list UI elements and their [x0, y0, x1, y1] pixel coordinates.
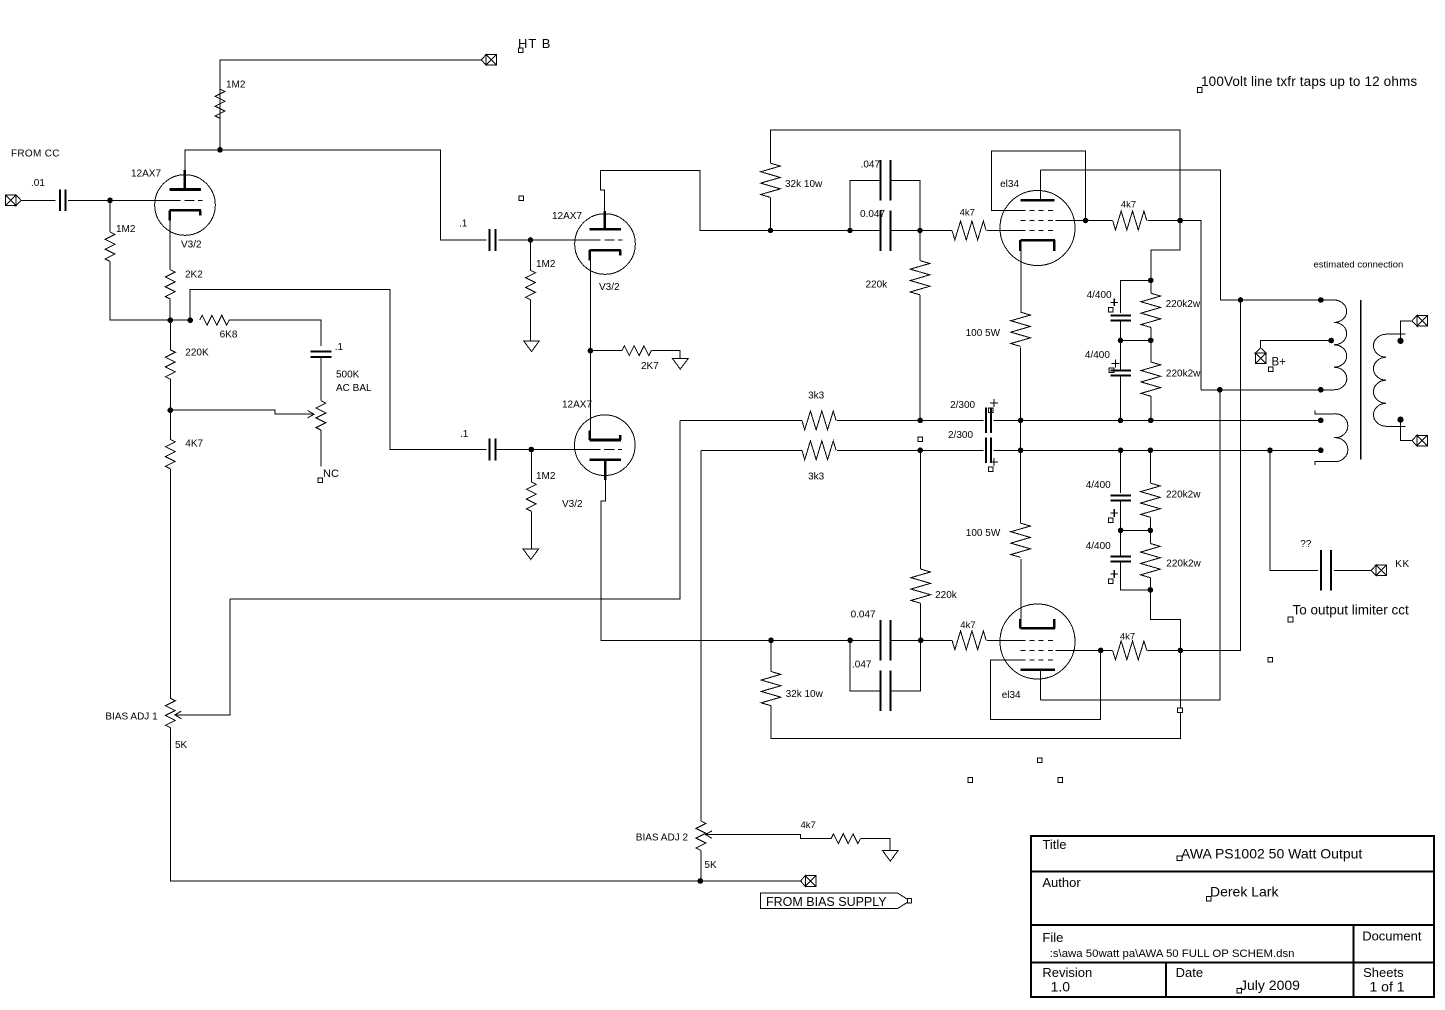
svg-text:To output limiter cct: To output limiter cct	[1293, 603, 1410, 618]
capacitor C8 4/400 label	[1085, 350, 1110, 361]
wire B+ tap	[1261, 341, 1332, 349]
svg-text:4/400: 4/400	[1085, 350, 1110, 361]
title block title text	[1181, 846, 1362, 862]
pot R5 500K body	[316, 401, 326, 430]
node plate rail junction	[1238, 297, 1244, 303]
svg-text:4K7: 4K7	[185, 439, 203, 450]
svg-text:1 of 1: 1 of 1	[1370, 979, 1405, 995]
capacitor C5 .047 label upper	[861, 160, 881, 171]
node NC label	[323, 468, 339, 480]
wire2 after 2/300	[993, 449, 1320, 451]
wire 220k upper top	[919, 231, 921, 261]
wire mid row	[1121, 339, 1151, 341]
title block Revision label	[1042, 965, 1092, 980]
wire bank bottom to screen node	[1150, 590, 1180, 651]
resistor R23 32k 10w label	[786, 689, 824, 700]
wire mid2 to C12	[1120, 530, 1122, 556]
node wire2 winding end	[1318, 448, 1324, 454]
svg-text:.047: .047	[852, 660, 872, 671]
node mid row left	[1118, 338, 1124, 344]
marker square lower d	[1058, 778, 1063, 783]
svg-text:32k 10w: 32k 10w	[785, 179, 823, 190]
resistor R17 220k2w label	[1166, 299, 1201, 310]
resistor R14 220k upper	[910, 261, 930, 295]
marker square lower c	[968, 778, 973, 783]
resistor R27 100 5W lower	[1011, 523, 1031, 557]
wire screen node to bank	[1151, 221, 1180, 281]
svg-text:el34: el34	[1000, 179, 1019, 190]
marker square C10	[988, 467, 993, 472]
label estimated connection	[1314, 260, 1404, 271]
svg-text:500K: 500K	[336, 370, 360, 381]
node cap bridge right upper	[917, 228, 923, 234]
wire V1 cathode to R2	[169, 221, 171, 270]
pot R8 5K label	[175, 740, 188, 751]
capacitor C3 .1 label	[459, 219, 468, 230]
marker square lower right a	[1178, 708, 1183, 713]
node wire1 winding end	[1318, 418, 1324, 424]
wire V1 plate up to node	[185, 150, 220, 170]
wire bank top to C7	[1121, 280, 1151, 313]
svg-text:.1: .1	[460, 429, 469, 440]
wire V3 plate down to lower rail	[601, 480, 771, 640]
resistor R15 4k7 screen upper	[1113, 211, 1147, 230]
svg-text:1.0: 1.0	[1051, 979, 1071, 995]
tube V5 el34 label	[1002, 690, 1021, 701]
wire R21 top	[1149, 450, 1151, 483]
resistor R27 100 5W label lower	[966, 528, 1001, 539]
marker square date	[1237, 988, 1242, 993]
svg-text:12AX7: 12AX7	[552, 211, 582, 222]
resistor R2 2K2 label	[185, 270, 203, 281]
resistor R16 100 5W label upper	[966, 328, 1001, 339]
resistor R9 1M2 grid leak	[526, 270, 536, 299]
marker square C12	[1109, 579, 1114, 584]
wire C12 to bottom row	[1121, 562, 1151, 590]
marker square lower b	[1038, 758, 1043, 763]
resistor R21 220k2w label	[1166, 490, 1201, 501]
ground below 2K7	[673, 359, 689, 370]
svg-text:Document: Document	[1362, 929, 1422, 944]
node cap bridge left upper	[847, 228, 853, 234]
capacitor C6 0.047 label upper	[860, 209, 885, 220]
wire V5 cathode up	[1020, 559, 1022, 619]
capacitor C1 .01 label	[31, 178, 45, 189]
wire V5 g3 loop	[991, 650, 1101, 719]
wire bank3 top	[1120, 450, 1122, 493]
resistor R4 6K8	[200, 315, 229, 325]
tube V4 envelope	[1000, 191, 1075, 266]
capacitor C15 ?? label	[1300, 539, 1312, 550]
resistor R2 2K2 cathode	[165, 270, 175, 299]
tube V4 g2 (dashed)	[1020, 220, 1055, 222]
resistor R14 220k label	[866, 280, 889, 291]
svg-text:4/400: 4/400	[1086, 480, 1111, 491]
wire V2 plate up	[601, 170, 771, 230]
svg-text:5K: 5K	[175, 740, 188, 751]
wire pot to NC	[320, 430, 322, 466]
tube V2 12AX7 label	[552, 211, 582, 222]
node grid V1 junction	[107, 198, 113, 204]
resistor R6 220K label	[185, 348, 209, 359]
svg-text::s\awa 50watt pa\AWA 50 FULL O: :s\awa 50watt pa\AWA 50 FULL OP SCHEM.ds…	[1050, 948, 1295, 960]
svg-text:4/400: 4/400	[1087, 290, 1112, 301]
svg-text:V3/2: V3/2	[181, 240, 202, 251]
resistor R4 6K8 label	[220, 330, 238, 341]
node bank bottom junction	[1148, 587, 1154, 593]
svg-text:2K2: 2K2	[185, 270, 203, 281]
tube V3 cathode	[590, 431, 621, 440]
svg-text:12AX7: 12AX7	[562, 400, 592, 411]
wire R18 bottom	[1150, 396, 1152, 420]
node A junction	[168, 317, 174, 323]
wire cathode resistor link	[1020, 420, 1022, 450]
wire secondary top terminal	[1401, 321, 1413, 341]
wire R22 bottom	[1149, 578, 1151, 590]
node 32k junction upper	[768, 228, 774, 234]
title block File label	[1042, 930, 1063, 945]
title block sheets text	[1370, 979, 1405, 995]
resistor R21 220k2w lower1	[1141, 483, 1161, 517]
node wire2 bank right junction	[1148, 448, 1154, 454]
capacitor C4 .1 label	[460, 429, 469, 440]
svg-text:NC: NC	[323, 468, 339, 480]
svg-text:220K: 220K	[185, 348, 209, 359]
pot R8 wiper arrow	[175, 711, 181, 719]
node wire2 bank left junction	[1118, 448, 1124, 454]
svg-text:V3/2: V3/2	[562, 499, 583, 510]
tube V2 envelope	[575, 214, 636, 275]
wire R27 to wire2	[1020, 450, 1022, 523]
label FROM BIAS SUPPLY banner	[760, 893, 911, 909]
svg-text:BIAS ADJ 2: BIAS ADJ 2	[636, 833, 689, 844]
node wire1 C8 junction	[1118, 418, 1124, 424]
wire R17 top	[1150, 280, 1152, 293]
coil T1 primary upper	[1321, 300, 1347, 390]
marker square C8	[1109, 368, 1114, 373]
node mid row right	[1148, 338, 1154, 344]
wire V4 cathode down	[1020, 251, 1022, 312]
label To output limiter cct	[1293, 603, 1410, 618]
wire R15 to screen node	[1148, 220, 1181, 222]
marker square near V1	[519, 196, 524, 201]
resistor R1 1M2 grid leak	[105, 232, 115, 261]
wire 220k lower top	[920, 450, 922, 569]
wire cathode node to 2K7	[590, 350, 622, 352]
resistor R29 4k7 bias	[831, 834, 860, 844]
title block revision text	[1051, 979, 1071, 995]
wire V5 plate to transformer	[1041, 390, 1221, 700]
node KK label	[1395, 559, 1409, 570]
marker square output limiter	[1288, 617, 1293, 622]
wire C1 to grid node	[68, 199, 110, 201]
svg-text:FROM BIAS SUPPLY: FROM BIAS SUPPLY	[766, 895, 887, 909]
resistor R25 220k label	[935, 590, 958, 601]
node primary bottom end	[1318, 387, 1324, 393]
tube V1 cathode	[170, 210, 201, 220]
resistor R6 220K	[165, 350, 175, 379]
tube V4 g1 (dashed)	[1020, 230, 1055, 232]
wire wiper to R29	[706, 835, 832, 839]
node cathode junction	[588, 348, 594, 354]
resistor R20 3k3 lower	[802, 441, 836, 460]
capacitor C11 4/400 label	[1086, 480, 1111, 491]
wire plate node to C3	[220, 150, 487, 240]
marker square HT B	[518, 48, 523, 53]
marker square NC	[318, 478, 323, 483]
wire mid2 row	[1121, 529, 1151, 531]
tube V1 name V3/2	[181, 240, 202, 251]
wire R2 to node A	[169, 299, 171, 320]
tube V5 plate lead	[1040, 670, 1042, 700]
tube V2 name V3/2	[599, 282, 620, 293]
ground below R29	[883, 851, 899, 862]
node V2 grid junction	[528, 237, 534, 243]
wire C15 to KK	[1334, 569, 1371, 571]
marker square C11	[1109, 518, 1114, 523]
svg-text:220k2w: 220k2w	[1166, 369, 1201, 380]
svg-text:4/400: 4/400	[1086, 541, 1111, 552]
resistor R26 4k7 label lower right	[1120, 631, 1135, 642]
capacitor C3 .1 coupling	[490, 229, 496, 251]
wire R18 top	[1150, 340, 1152, 362]
node wire2 KK tap junction	[1267, 448, 1273, 454]
ground below R11	[523, 549, 539, 560]
node wire2-220k junction	[917, 448, 923, 454]
svg-text:July 2009: July 2009	[1240, 977, 1300, 993]
ground below R9	[524, 341, 540, 352]
wire R28 bottom to bias node	[700, 850, 702, 881]
svg-text:KK: KK	[1395, 559, 1409, 570]
wire R21 bottom	[1149, 517, 1151, 530]
wire plate node up to R3	[219, 89, 221, 150]
wire1 rail left	[680, 419, 802, 421]
wire rail through caps lower	[850, 639, 921, 641]
title block Date label	[1176, 965, 1203, 980]
svg-text:AC BAL: AC BAL	[336, 383, 372, 394]
svg-text:100 5W: 100 5W	[966, 328, 1001, 339]
marker square author	[1206, 896, 1211, 901]
terminal J1 input (FROM CC)	[6, 195, 21, 206]
svg-text:1M2: 1M2	[536, 471, 556, 482]
wire node A down to 220K	[169, 320, 171, 350]
wire R11 to ground	[530, 511, 532, 549]
terminal B+	[1255, 348, 1266, 363]
tube V5 g1 (dashed)	[1020, 639, 1055, 641]
pot R5 500K AC BAL label	[336, 370, 372, 395]
resistor R7 4K7 label	[185, 439, 203, 450]
capacitor C6 0.047 coupling upper	[881, 210, 891, 251]
svg-text:.047: .047	[861, 160, 881, 171]
node wiper junction	[168, 407, 174, 413]
wire V2 cathode down	[589, 260, 591, 350]
wire 32k lower to screen rail	[771, 650, 1180, 738]
svg-text:estimated connection: estimated connection	[1314, 260, 1404, 271]
svg-text:4k7: 4k7	[960, 208, 975, 219]
node plate junction	[217, 147, 223, 153]
capacitor C8 plus	[1112, 360, 1120, 368]
svg-text:6K8: 6K8	[220, 330, 238, 341]
wire 220k lower bottom	[920, 603, 922, 640]
svg-text:.1: .1	[335, 342, 344, 353]
resistor R26 4k7 screen lower	[1113, 641, 1147, 660]
svg-text:3k3: 3k3	[808, 391, 825, 402]
svg-text:220k2w: 220k2w	[1166, 299, 1201, 310]
tube V4 g3 (dashed)	[1020, 209, 1055, 211]
svg-text:Date: Date	[1176, 965, 1203, 980]
resistor R11 1M2 grid leak	[526, 482, 536, 511]
wire R24 to V5 g1	[987, 639, 1020, 641]
wire cathode node down to V3 cathode	[589, 351, 591, 431]
wire 2K7 to ground	[651, 351, 680, 359]
wire 220K to wiper node	[169, 379, 171, 410]
wire grid node to V1 grid	[110, 199, 171, 201]
title block frame	[1031, 836, 1434, 997]
tube V4 el34 label	[1000, 179, 1019, 190]
svg-text:220k2w: 220k2w	[1166, 558, 1201, 569]
wire secondary bottom terminal	[1401, 420, 1413, 441]
tube V4 cathode	[1020, 240, 1055, 251]
svg-text:32k 10w: 32k 10w	[786, 689, 824, 700]
transformer core	[1360, 300, 1362, 460]
node B+ label	[1272, 357, 1287, 369]
pot R8 5K body	[165, 698, 175, 727]
title block Title label	[1042, 837, 1066, 852]
wire C7 to mid row	[1120, 321, 1122, 341]
node mid2 row left	[1118, 528, 1124, 534]
tube V2 grid (dashed)	[591, 239, 623, 241]
svg-text:100 5W: 100 5W	[966, 528, 1001, 539]
terminal KK	[1371, 565, 1386, 576]
capacitor C7 4/400 label	[1087, 290, 1112, 301]
wire1 to 2/300	[920, 419, 983, 421]
node A2 junction	[187, 317, 193, 323]
wire R16 to wire1	[1020, 347, 1022, 420]
svg-text:1M2: 1M2	[536, 259, 556, 270]
node V5 g2 junction	[1098, 648, 1104, 654]
capacitor C7 plus	[1110, 299, 1118, 307]
node wire1 R18 junction	[1148, 418, 1154, 424]
marker square B+	[1269, 367, 1274, 372]
terminal HT B	[481, 55, 496, 66]
capacitor C5 .047 bypass upper	[881, 160, 891, 201]
node 32k junction lower	[768, 638, 774, 644]
wire V5 g2 to node	[1055, 649, 1100, 651]
wire mid to C8	[1120, 340, 1122, 370]
tube V2 plate	[590, 228, 621, 231]
wire node A2 up-over to V3 grid cap	[190, 289, 486, 449]
wire 32k lower top	[770, 640, 772, 671]
svg-text:3k3: 3k3	[808, 472, 825, 483]
title block file text	[1050, 948, 1295, 960]
wire V3 grid to grid node	[531, 449, 590, 451]
wire1 rail mid	[837, 419, 920, 421]
resistor R17 220k2w upper1	[1141, 293, 1161, 327]
wire wiper node to AC BAL arrow	[170, 410, 313, 414]
capacitor C2 .1 AC BAL	[310, 351, 331, 356]
resistor R29 4k7 label bias	[801, 820, 816, 831]
title block Sheets label	[1363, 965, 1404, 980]
resistor R19 3k3 label upper	[808, 391, 825, 402]
tube V3 plate	[590, 458, 621, 461]
capacitor C10 2/300	[986, 438, 991, 464]
capacitor C15 coupling	[1321, 550, 1331, 591]
wire R7 down to BIAS ADJ 1	[169, 469, 171, 699]
wire bias node to terminal	[700, 880, 800, 882]
wire rail to cap bridge	[771, 230, 851, 232]
svg-text:el34: el34	[1002, 690, 1021, 701]
svg-text:FROM CC: FROM CC	[11, 149, 60, 160]
resistor R18 220k2w label	[1166, 369, 1201, 380]
tube V3 12AX7 label	[562, 400, 592, 411]
resistor R12 32k 10w upper	[761, 163, 781, 197]
svg-text:V3/2: V3/2	[599, 282, 620, 293]
wire input to C1	[21, 199, 56, 201]
tube V3 envelope	[575, 415, 636, 476]
resistor R22 220k2w lower2	[1141, 544, 1161, 578]
resistor R11 1M2 label	[536, 471, 556, 482]
node primary top end	[1318, 297, 1324, 303]
title block Document label	[1362, 929, 1422, 944]
capacitor C14 .047 label lower	[852, 660, 872, 671]
resistor R25 220k lower	[911, 569, 931, 603]
wire V4 g3 loop	[991, 151, 1085, 221]
svg-text:.1: .1	[459, 219, 468, 230]
wire 32k top	[770, 198, 772, 231]
capacitor C10 2/300 label	[948, 430, 973, 441]
label 100Volt line	[1201, 74, 1417, 89]
tube V3 name V3/2	[562, 499, 583, 510]
coil T1 cathode winding	[1315, 411, 1348, 465]
svg-text:220k: 220k	[866, 280, 889, 291]
node V3 grid junction	[529, 447, 535, 453]
tube V4 plate	[1020, 199, 1054, 202]
wire grid node down to R1	[109, 200, 111, 232]
tube V3 grid (dashed)	[590, 449, 622, 451]
title block Author label	[1042, 875, 1081, 890]
wire C3 to V2 grid node	[498, 239, 530, 241]
tube V5 envelope	[1000, 604, 1075, 679]
svg-text:BIAS ADJ 1: BIAS ADJ 1	[105, 712, 158, 723]
wire R22 top	[1149, 530, 1151, 543]
node wire1 cathode-R junction	[1018, 418, 1024, 424]
wire2 to 2/300	[920, 449, 983, 451]
pot R28 5K body	[696, 821, 706, 850]
capacitor C2 .1 label	[335, 342, 344, 353]
resistor R15 4k7 label upper right	[1121, 199, 1136, 210]
node cap bridge right lower	[918, 638, 924, 644]
resistor R10 2K7	[622, 346, 651, 356]
resistor R23 32k 10w lower	[761, 672, 781, 706]
resistor R22 220k2w label	[1166, 558, 1201, 569]
svg-text:File: File	[1042, 930, 1063, 945]
node HT B label	[518, 36, 551, 51]
marker square C7	[1109, 308, 1114, 313]
wire wiper node to R7	[169, 410, 171, 439]
wire feedback to wire1 corner	[230, 420, 680, 599]
wire cap bridge left	[850, 180, 920, 230]
marker square C9	[988, 408, 993, 413]
title block date text	[1240, 977, 1300, 993]
capacitor C10 plus	[990, 458, 998, 466]
tube V1 plate lead	[184, 170, 187, 189]
capacitor C11 4/400	[1110, 495, 1131, 500]
coil T1 secondary	[1373, 334, 1405, 426]
marker square x920	[918, 437, 923, 442]
tube V4 plate lead	[1040, 170, 1042, 200]
resistor R13 4k7 label upper	[960, 208, 975, 219]
capacitor C13 0.047 label lower	[851, 610, 876, 621]
